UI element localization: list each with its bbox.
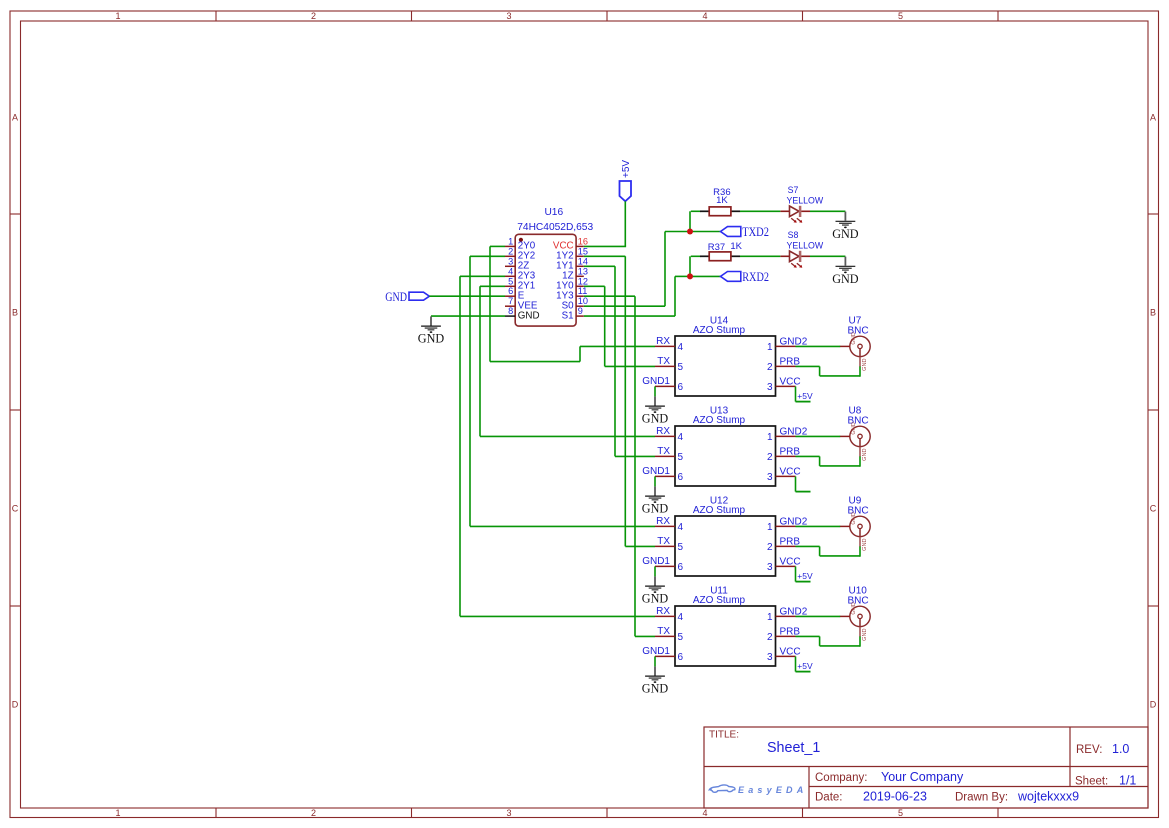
- svg-text:EasyEDA: EasyEDA: [738, 785, 807, 795]
- wire U13 GND1 down: [654, 476, 656, 486]
- svg-text:6: 6: [678, 562, 684, 573]
- svg-text:10: 10: [578, 296, 588, 306]
- svg-text:TX: TX: [657, 536, 670, 547]
- ground at U13 GND1: [642, 486, 668, 515]
- svg-text:Sheet:: Sheet:: [1075, 776, 1108, 788]
- svg-text:4: 4: [678, 522, 684, 533]
- wire to R37 left lead: [691, 255, 701, 257]
- svg-text:RX: RX: [656, 606, 670, 617]
- svg-text:2019-06-23: 2019-06-23: [863, 790, 927, 804]
- svg-text:VCC: VCC: [780, 557, 801, 568]
- svg-text:1: 1: [767, 522, 773, 533]
- svg-text:15: 15: [578, 246, 588, 256]
- wire PRB to U7 shield: [820, 375, 860, 377]
- svg-text:4: 4: [678, 432, 684, 443]
- wire to U12 RX: [470, 525, 655, 527]
- ground at U14 GND1: [642, 396, 668, 425]
- svg-text:GND: GND: [862, 538, 868, 550]
- svg-text:1: 1: [115, 808, 120, 818]
- svg-text:GND: GND: [642, 501, 668, 516]
- svg-text:YELLOW: YELLOW: [787, 195, 824, 205]
- svg-text:GND: GND: [851, 512, 857, 524]
- BNC connector U9: [840, 496, 871, 551]
- wire VCC pin16 to +5V: [584, 245, 626, 247]
- wire 1Y3 vertical to U11 TX: [634, 296, 636, 636]
- svg-text:3: 3: [767, 562, 773, 573]
- svg-text:2: 2: [767, 452, 773, 463]
- svg-text:5: 5: [678, 632, 684, 643]
- wire to R36 left lead: [691, 210, 701, 212]
- ground at S8: [832, 257, 858, 286]
- svg-text:Sheet_1: Sheet_1: [767, 740, 820, 756]
- svg-text:11: 11: [578, 286, 588, 296]
- IC U16 74HC4052D,653: [505, 207, 593, 326]
- svg-text:RX: RX: [656, 426, 670, 437]
- wire to U13 TX: [615, 455, 655, 457]
- svg-text:VCC: VCC: [780, 647, 801, 658]
- svg-text:3: 3: [767, 472, 773, 483]
- svg-text:1.0: 1.0: [1112, 742, 1129, 756]
- svg-text:B: B: [12, 308, 18, 318]
- wire S1 vertical up: [674, 276, 676, 316]
- svg-text:GND: GND: [385, 290, 407, 304]
- svg-text:Drawn By:: Drawn By:: [955, 792, 1008, 804]
- svg-text:GND: GND: [832, 226, 858, 241]
- svg-text:C: C: [12, 504, 19, 514]
- BNC connector U10: [840, 586, 871, 641]
- svg-text:+5V: +5V: [797, 391, 813, 401]
- wire 2Y0 jog up: [579, 346, 581, 361]
- svg-text:AZO Stump: AZO Stump: [693, 505, 746, 516]
- wire U8 shield up: [859, 456, 861, 466]
- svg-text:5: 5: [678, 362, 684, 373]
- wire R36 to S7: [740, 210, 780, 212]
- svg-text:TX: TX: [657, 446, 670, 457]
- junction dot RXD2 net: [687, 273, 693, 279]
- svg-text:5: 5: [508, 276, 513, 286]
- wire U11 GND1 down: [654, 656, 656, 666]
- svg-text:3: 3: [767, 382, 773, 393]
- svg-text:3: 3: [767, 652, 773, 663]
- resistor R37 1K: [700, 241, 743, 261]
- svg-text:GND: GND: [832, 271, 858, 286]
- svg-text:6: 6: [508, 286, 513, 296]
- ground at U12 GND1: [642, 576, 668, 605]
- svg-text:1K: 1K: [730, 241, 742, 252]
- svg-text:TX: TX: [657, 356, 670, 367]
- wire 2Y3 pin4 left: [460, 275, 505, 277]
- svg-text:GND: GND: [851, 422, 857, 434]
- LED S8 YELLOW: [780, 230, 824, 268]
- wire to U12 TX: [625, 545, 655, 547]
- power flag +5V at U13 VCC: [796, 476, 811, 491]
- svg-text:S1: S1: [562, 310, 574, 321]
- EasyEDA logo: [709, 785, 735, 792]
- svg-text:16: 16: [578, 236, 588, 246]
- wire to RXD2 junction: [675, 275, 690, 277]
- module U12 AZO Stump: [642, 495, 808, 576]
- svg-text:VCC: VCC: [780, 377, 801, 388]
- svg-text:8: 8: [508, 306, 513, 316]
- module U11 AZO Stump: [642, 585, 808, 666]
- wire S1 pin9 right: [584, 315, 675, 317]
- svg-text:4: 4: [702, 808, 707, 818]
- wire to U14 RX: [580, 345, 655, 347]
- wire U14 PRB right: [796, 365, 820, 367]
- wire U14 PRB down: [819, 366, 821, 376]
- svg-text:4: 4: [508, 266, 513, 276]
- module U13 AZO Stump: [642, 405, 808, 486]
- svg-text:RX: RX: [656, 516, 670, 527]
- ground at U16 pin8: [418, 316, 444, 345]
- power flag +5V at U12 VCC: [796, 566, 813, 581]
- wire 1Y1 vertical to U13 TX: [614, 266, 616, 456]
- svg-text:9: 9: [578, 306, 583, 316]
- wire 2Y3 vertical: [459, 276, 461, 616]
- ground at S7: [832, 212, 858, 241]
- wire U10 shield up: [859, 636, 861, 646]
- wire U16 pin8 GND to ground: [431, 315, 505, 317]
- svg-text:1K: 1K: [716, 195, 728, 206]
- svg-text:GND1: GND1: [642, 466, 670, 477]
- resistor R36 1K: [700, 187, 740, 216]
- wire 2Y1 pin5 left: [480, 285, 505, 287]
- wire PRB to U8 shield: [820, 465, 860, 467]
- ground at U11 GND1: [642, 666, 668, 695]
- svg-text:Company:: Company:: [815, 772, 867, 784]
- svg-text:1: 1: [767, 432, 773, 443]
- svg-text:3: 3: [506, 808, 511, 818]
- wire U12 GND2 to U9: [796, 525, 841, 527]
- svg-text:1: 1: [508, 236, 513, 246]
- svg-text:3: 3: [508, 256, 513, 266]
- svg-text:74HC4052D,653: 74HC4052D,653: [517, 222, 593, 233]
- svg-text:1/1: 1/1: [1119, 774, 1136, 788]
- wire U13 PRB down: [819, 456, 821, 466]
- wire to U11 RX: [460, 615, 655, 617]
- svg-text:5: 5: [678, 452, 684, 463]
- svg-text:1: 1: [767, 612, 773, 623]
- svg-text:wojtekxxx9: wojtekxxx9: [1017, 790, 1079, 804]
- wire U11 PRB down: [819, 636, 821, 646]
- svg-text:R37: R37: [708, 242, 725, 253]
- wire U14 GND2 to U7: [796, 345, 841, 347]
- svg-text:TX: TX: [657, 626, 670, 637]
- net port TXD2: [721, 224, 770, 239]
- wire U12 PRB right: [796, 545, 820, 547]
- svg-text:GND: GND: [642, 411, 668, 426]
- svg-text:C: C: [1150, 504, 1157, 514]
- svg-text:RXD2: RXD2: [742, 269, 769, 284]
- svg-text:A: A: [1150, 113, 1156, 123]
- svg-text:+5V: +5V: [621, 160, 632, 178]
- wire junction to TXD2 port: [690, 231, 721, 233]
- svg-text:U16: U16: [544, 207, 563, 218]
- svg-text:2: 2: [311, 808, 316, 818]
- wire 2Y1 vertical: [479, 286, 481, 436]
- wire 1Y0 pin12 right: [584, 285, 605, 287]
- svg-text:GND1: GND1: [642, 556, 670, 567]
- svg-text:7: 7: [508, 296, 513, 306]
- svg-text:4: 4: [702, 11, 707, 21]
- wire 2Y0 pin1 left: [490, 245, 505, 247]
- title block: [704, 727, 1148, 808]
- wire 2Y2 vertical: [469, 256, 471, 526]
- wire U11 GND2 to U10: [796, 615, 841, 617]
- wire S0 vertical up: [664, 232, 666, 307]
- svg-text:GND: GND: [518, 310, 540, 321]
- svg-text:4: 4: [678, 612, 684, 623]
- svg-text:TITLE:: TITLE:: [709, 730, 739, 741]
- LED S7 YELLOW: [780, 185, 824, 223]
- wire PRB to U9 shield: [820, 555, 860, 557]
- wire to TXD2 junction: [665, 231, 690, 233]
- svg-text:6: 6: [678, 652, 684, 663]
- svg-text:5: 5: [678, 542, 684, 553]
- net port RXD2: [721, 269, 770, 284]
- BNC connector U7: [840, 316, 871, 371]
- wire 1Y3 pin11 right: [584, 295, 635, 297]
- wire S8 to ground: [810, 255, 845, 257]
- wire 2Y2 pin2 left: [470, 255, 505, 257]
- svg-text:13: 13: [578, 266, 588, 276]
- svg-text:2: 2: [767, 362, 773, 373]
- svg-text:2: 2: [311, 11, 316, 21]
- wire U9 shield up: [859, 546, 861, 556]
- module U14 AZO Stump: [642, 315, 808, 396]
- power flag +5V at U14 VCC: [796, 386, 813, 401]
- svg-text:TXD2: TXD2: [742, 224, 769, 239]
- svg-text:D: D: [1150, 700, 1157, 710]
- wire PRB to U10 shield: [820, 645, 860, 647]
- svg-text:AZO Stump: AZO Stump: [693, 325, 746, 336]
- wire U7 shield up: [859, 366, 861, 376]
- wire GND port to U16 pin6 E: [429, 295, 505, 297]
- svg-text:5: 5: [898, 808, 903, 818]
- svg-text:1: 1: [115, 11, 120, 21]
- wire U11 PRB right: [796, 635, 820, 637]
- svg-text:YELLOW: YELLOW: [787, 240, 824, 250]
- svg-text:S7: S7: [788, 185, 799, 195]
- svg-text:GND: GND: [862, 358, 868, 370]
- svg-text:5: 5: [898, 11, 903, 21]
- wire 1Y2 pin15 right: [584, 255, 626, 257]
- svg-text:RX: RX: [656, 336, 670, 347]
- svg-text:3: 3: [506, 11, 511, 21]
- svg-text:AZO Stump: AZO Stump: [693, 595, 746, 606]
- wire +5V flag down to VCC net: [624, 201, 626, 246]
- wire 1Y0 vertical to U14 TX: [604, 286, 606, 366]
- svg-text:1: 1: [767, 342, 773, 353]
- svg-text:S8: S8: [788, 230, 799, 240]
- wire to U11 TX: [635, 635, 655, 637]
- svg-text:2: 2: [767, 632, 773, 643]
- wire U14 GND1 down: [654, 386, 656, 396]
- svg-text:Date:: Date:: [815, 792, 843, 804]
- junction dot TXD2 net: [687, 229, 693, 235]
- svg-text:REV:: REV:: [1076, 744, 1102, 756]
- svg-text:B: B: [1150, 308, 1156, 318]
- svg-text:Your Company: Your Company: [881, 770, 964, 784]
- wire to U14 TX: [605, 365, 655, 367]
- net port GND (to pin E): [385, 290, 429, 304]
- svg-text:D: D: [12, 700, 19, 710]
- svg-text:4: 4: [678, 342, 684, 353]
- svg-text:GND: GND: [642, 681, 668, 696]
- wire 2Y0 horizontal jog: [490, 361, 580, 363]
- svg-text:GND1: GND1: [642, 376, 670, 387]
- wire 1Y2 vertical to U12 TX: [624, 256, 626, 546]
- svg-text:VCC: VCC: [780, 467, 801, 478]
- wire to U13 RX: [480, 435, 655, 437]
- svg-text:14: 14: [578, 256, 588, 266]
- wire 2Y0 vertical: [489, 246, 491, 361]
- svg-text:GND1: GND1: [642, 646, 670, 657]
- wire S0 pin10 right: [584, 305, 665, 307]
- svg-text:6: 6: [678, 472, 684, 483]
- wire S7 to ground: [810, 210, 845, 212]
- svg-text:GND: GND: [851, 332, 857, 344]
- svg-text:GND: GND: [862, 628, 868, 640]
- svg-text:GND: GND: [418, 331, 444, 346]
- svg-text:12: 12: [578, 276, 588, 286]
- svg-text:A: A: [12, 113, 18, 123]
- svg-text:+5V: +5V: [797, 661, 813, 671]
- wire U13 PRB right: [796, 455, 820, 457]
- svg-text:GND: GND: [851, 602, 857, 614]
- power flag +5V at U11 VCC: [796, 656, 813, 671]
- BNC connector U8: [840, 406, 871, 461]
- svg-text:GND: GND: [642, 591, 668, 606]
- svg-text:GND: GND: [862, 448, 868, 460]
- power flag +5V: [620, 160, 633, 202]
- wire U12 GND1 down: [654, 566, 656, 576]
- svg-text:2: 2: [508, 246, 513, 256]
- wire junction up to R37: [689, 256, 691, 276]
- wire U12 PRB down: [819, 546, 821, 556]
- wire 1Y1 pin14 right: [584, 265, 615, 267]
- svg-text:AZO Stump: AZO Stump: [693, 415, 746, 426]
- wire R37 to S8: [740, 255, 780, 257]
- svg-text:2: 2: [767, 542, 773, 553]
- wire junction to RXD2 port: [690, 275, 721, 277]
- wire junction up to R36: [689, 211, 691, 231]
- wire U13 GND2 to U8: [796, 435, 841, 437]
- svg-text:6: 6: [678, 382, 684, 393]
- svg-text:+5V: +5V: [797, 571, 813, 581]
